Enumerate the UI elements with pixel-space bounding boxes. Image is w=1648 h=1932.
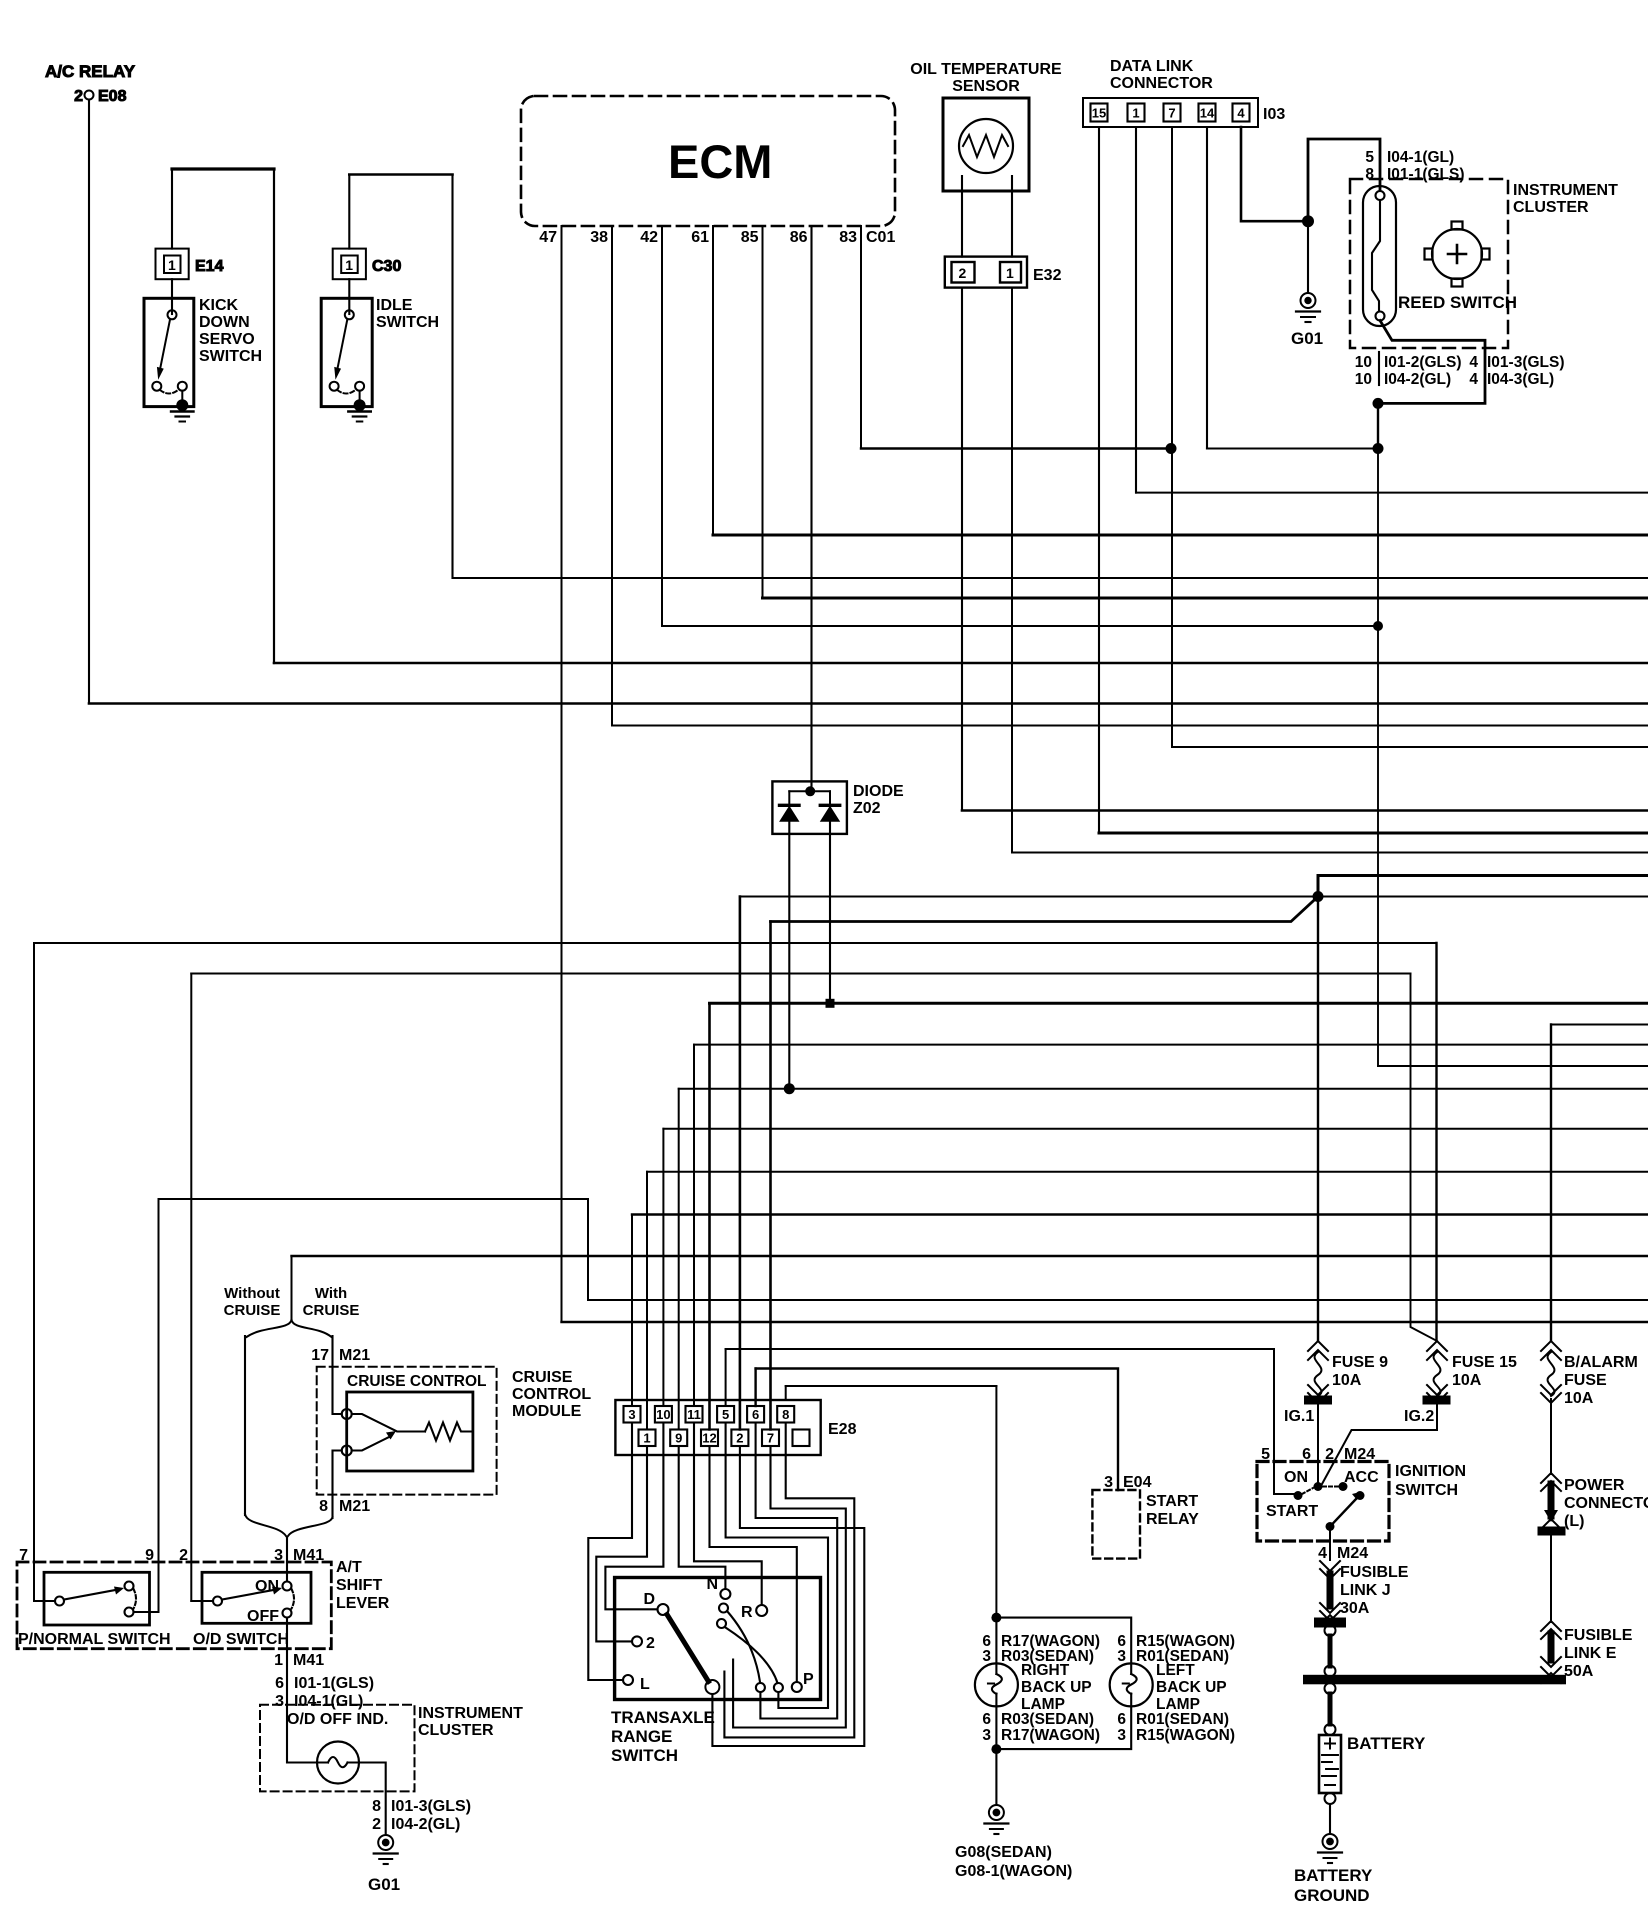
wire E28 pin1 up	[646, 1172, 648, 1430]
svg-text:P/NORMAL SWITCH: P/NORMAL SWITCH	[18, 1631, 171, 1648]
svg-text:BACK UP: BACK UP	[1021, 1679, 1092, 1696]
wire oil temp pin 2	[961, 288, 963, 811]
svg-text:OFF: OFF	[247, 1608, 279, 1625]
svg-text:SWITCH: SWITCH	[376, 314, 439, 331]
wire E28 pin11 line y=1044.6	[694, 1044, 1648, 1046]
svg-text:REED SWITCH: REED SWITCH	[1398, 293, 1517, 312]
wire reed node down	[1377, 403, 1379, 448]
ground G01 top	[1291, 227, 1323, 348]
svg-text:4: 4	[1318, 1545, 1327, 1562]
connector E32	[945, 257, 1027, 288]
svg-text:6: 6	[1117, 1711, 1126, 1728]
wire pin9 from P/NORMAL	[134, 1611, 159, 1613]
svg-text:86: 86	[790, 229, 808, 246]
svg-text:9: 9	[675, 1431, 682, 1446]
wire E28 pin9 line y=1088.7	[679, 1088, 1648, 1090]
rotary arm	[667, 1615, 709, 1682]
svg-text:8: 8	[372, 1798, 381, 1815]
wire ECM pin 38	[611, 226, 613, 726]
svg-text:RELAY: RELAY	[1146, 1511, 1199, 1528]
ground G01 bottom	[368, 1835, 400, 1894]
wire E28 pin3 line y=1214.5	[632, 1213, 1648, 1215]
connector C30	[333, 249, 366, 280]
speedometer symbol	[1425, 222, 1490, 287]
wire A/C relay horizontal y=703.5	[89, 702, 1648, 705]
P/NORMAL switch	[18, 1572, 171, 1648]
svg-text:I01-1(GLS): I01-1(GLS)	[1387, 166, 1465, 183]
wire ECM pin 85	[762, 226, 764, 598]
idle switch	[321, 298, 372, 421]
svg-text:3: 3	[1117, 1648, 1126, 1665]
svg-text:B/ALARM: B/ALARM	[1564, 1354, 1638, 1371]
transistor + resistor symbol	[342, 1409, 473, 1456]
power connector (L)	[1538, 1399, 1566, 1536]
svg-text:I01-3(GLS): I01-3(GLS)	[1487, 354, 1565, 371]
fusible link J	[1314, 1561, 1346, 1628]
svg-text:12: 12	[702, 1431, 716, 1446]
svg-text:10A: 10A	[1452, 1372, 1482, 1389]
wire E28 pin12 up	[708, 1003, 711, 1429]
kick down servo switch	[144, 298, 194, 421]
svg-text:3: 3	[275, 1693, 284, 1710]
svg-text:CRUISE: CRUISE	[512, 1369, 573, 1386]
wire DLC pin 1	[1135, 127, 1137, 493]
instrument cluster bottom dashed box	[260, 1705, 415, 1792]
svg-text:M21: M21	[339, 1347, 370, 1364]
svg-text:G01: G01	[1291, 329, 1323, 348]
wire fuse15 to ACC	[1322, 1405, 1437, 1485]
node 83 line / DLC pin7	[1166, 443, 1177, 454]
svg-text:R: R	[741, 1604, 753, 1621]
svg-text:2: 2	[646, 1635, 655, 1652]
wire DLC pin 7	[1171, 127, 1173, 747]
svg-text:I01-1(GLS): I01-1(GLS)	[294, 1675, 374, 1692]
right back up lamp	[975, 1613, 1131, 1755]
start relay E04	[1092, 1474, 1199, 1559]
svg-text:IG.2: IG.2	[1404, 1408, 1434, 1425]
wire fuse9 to ON	[1317, 1405, 1319, 1483]
wire B/alarm feed y=1024.5	[1551, 1024, 1648, 1026]
wire E28 pin6 down to contact	[756, 1423, 838, 1719]
svg-text:With: With	[315, 1285, 347, 1302]
wire DLC pin 15	[1098, 127, 1100, 833]
svg-text:SENSOR: SENSOR	[952, 78, 1020, 95]
wire kick-down right branch down	[273, 169, 275, 663]
svg-text:N: N	[706, 1576, 718, 1593]
wire reed bottom loop	[1378, 321, 1485, 404]
ignition switch M24	[1257, 1446, 1466, 1541]
node reed wire y448	[1373, 443, 1384, 454]
svg-text:RIGHT: RIGHT	[1021, 1662, 1070, 1679]
wire E28 pin12 line y=1003.3	[710, 1002, 1648, 1005]
svg-text:DATA LINK: DATA LINK	[1110, 58, 1194, 75]
svg-text:10A: 10A	[1332, 1372, 1362, 1389]
svg-text:G08(SEDAN): G08(SEDAN)	[955, 1844, 1052, 1861]
svg-text:4: 4	[1469, 371, 1478, 388]
svg-text:FUSE 15: FUSE 15	[1452, 1354, 1517, 1371]
wire kick-down horizontal y=663	[274, 662, 1648, 665]
svg-text:FUSIBLE: FUSIBLE	[1340, 1564, 1409, 1581]
svg-text:7: 7	[19, 1547, 28, 1564]
battery	[1319, 1734, 1426, 1833]
transaxle range switch box	[615, 1578, 821, 1700]
svg-text:C30: C30	[372, 258, 401, 275]
cruise split labels	[224, 1285, 360, 1319]
svg-text:INSTRUMENT: INSTRUMENT	[1513, 182, 1618, 199]
wire ECM pin 47	[561, 226, 563, 1322]
wire E28 pin7 down to contact	[733, 1446, 846, 1728]
svg-text:5: 5	[1365, 149, 1374, 166]
svg-text:Z02: Z02	[853, 800, 881, 817]
node IG1 junction	[1313, 891, 1324, 902]
wire cruise M21-17 line y=1256	[292, 1255, 1648, 1257]
svg-text:SWITCH: SWITCH	[1395, 1482, 1458, 1499]
wire E28 pin2 feed y=896.5	[740, 896, 1648, 898]
svg-text:R15(WAGON): R15(WAGON)	[1136, 1727, 1235, 1744]
ECM pin labels	[539, 229, 895, 246]
wire idle horizontal y=578	[453, 577, 1648, 579]
wire E28 pin6 up	[754, 1369, 756, 1407]
wire ignition to fusible link J	[1329, 1527, 1331, 1561]
svg-text:D: D	[643, 1591, 655, 1608]
wire DLC pin 14	[1206, 127, 1208, 449]
main bus bar	[1303, 1675, 1566, 1685]
svg-text:8: 8	[1365, 166, 1374, 183]
connector E28	[615, 1400, 856, 1455]
ECM box	[521, 96, 895, 226]
wire without-cruise bypass	[244, 1336, 246, 1515]
fusible link E	[1541, 1536, 1561, 1684]
wire E28 pin12 down to P	[710, 1446, 797, 1682]
wire E14 to switch	[171, 279, 173, 314]
svg-text:CRUISE: CRUISE	[224, 1302, 281, 1319]
svg-text:G08-1(WAGON): G08-1(WAGON)	[955, 1863, 1072, 1880]
svg-text:I04-2(GL): I04-2(GL)	[391, 1816, 460, 1833]
wire kick-down top loop	[172, 167, 274, 170]
wire E28 pin5 down to contact	[726, 1423, 828, 1709]
wire E28 pin2 up	[739, 897, 742, 1430]
fuse 15	[1423, 1341, 1451, 1405]
svg-text:I01-2(GLS): I01-2(GLS)	[1384, 354, 1462, 371]
svg-text:1: 1	[345, 257, 353, 273]
svg-text:START: START	[1266, 1503, 1318, 1520]
node 42 to reed wire	[1373, 621, 1383, 631]
svg-text:E32: E32	[1033, 267, 1062, 284]
svg-text:6: 6	[752, 1407, 759, 1422]
wire E28 pin1 down to 2	[596, 1446, 647, 1641]
battery stack	[1303, 1625, 1566, 1735]
wire E28 pin7 up	[769, 922, 772, 1430]
svg-text:START: START	[1146, 1493, 1198, 1510]
svg-text:E08: E08	[98, 88, 127, 105]
svg-text:I01-3(GLS): I01-3(GLS)	[391, 1798, 471, 1815]
svg-text:9: 9	[145, 1547, 154, 1564]
transaxle contacts	[623, 1576, 814, 1694]
wire pin2 into O/D	[191, 1600, 213, 1602]
svg-text:FUSE: FUSE	[1564, 1372, 1607, 1389]
wire A/T P-normal-9 line y=1300	[588, 1299, 1648, 1301]
svg-text:DOWN: DOWN	[199, 314, 250, 331]
label kick down servo switch	[199, 297, 262, 365]
svg-text:SWITCH: SWITCH	[611, 1746, 678, 1765]
svg-text:OIL TEMPERATURE: OIL TEMPERATURE	[910, 61, 1062, 78]
diode Z02	[772, 781, 904, 834]
A/T shift lever dashed box	[17, 1562, 331, 1649]
wire O/D switch pin2 line y=973.5	[191, 973, 1410, 975]
wire ECM pin 42	[661, 226, 663, 626]
svg-text:MODULE: MODULE	[512, 1403, 582, 1420]
svg-text:BACK UP: BACK UP	[1156, 1679, 1227, 1696]
svg-text:FUSIBLE: FUSIBLE	[1564, 1627, 1633, 1644]
svg-text:KICK: KICK	[199, 297, 239, 314]
wire diode right leg to pin12 line	[829, 820, 831, 1003]
svg-text:17: 17	[311, 1347, 329, 1364]
wire IG1 top branch	[1318, 876, 1648, 897]
svg-text:E14: E14	[195, 258, 224, 275]
wire E28 pin11 down to R	[694, 1423, 762, 1606]
wire diode left leg to pin9 line	[788, 820, 790, 1089]
contact arcs	[727, 1611, 760, 1682]
wire E28 pin8 line y=1386 to back up lamps	[786, 1385, 997, 1387]
svg-text:CLUSTER: CLUSTER	[418, 1722, 494, 1739]
left back up lamp	[1110, 1663, 1153, 1706]
wire E28 pin11 up	[693, 1045, 695, 1406]
svg-text:CRUISE: CRUISE	[303, 1302, 360, 1319]
wire ECM pin 61	[712, 226, 714, 535]
svg-text:10A: 10A	[1564, 1390, 1594, 1407]
svg-text:SHIFT: SHIFT	[336, 1577, 382, 1594]
svg-text:R01(SEDAN): R01(SEDAN)	[1136, 1711, 1229, 1728]
svg-text:LINK J: LINK J	[1340, 1582, 1391, 1599]
wire DLC pin 4 to G01	[1241, 127, 1308, 221]
svg-text:3: 3	[1117, 1727, 1126, 1744]
wire E28 pin9 up	[678, 1089, 680, 1430]
cruise module inner box	[347, 1392, 473, 1471]
svg-text:CLUSTER: CLUSTER	[1513, 199, 1589, 216]
svg-text:E28: E28	[828, 1421, 857, 1438]
connector E14	[156, 249, 189, 280]
wire E28 pin5 up	[725, 1349, 727, 1406]
svg-text:CONTROL: CONTROL	[512, 1386, 591, 1403]
svg-text:ACC: ACC	[1344, 1469, 1379, 1486]
svg-text:4: 4	[1469, 354, 1478, 371]
O/D switch	[193, 1572, 311, 1648]
svg-text:2: 2	[372, 1816, 381, 1833]
wire merge to A/T ON	[286, 1537, 288, 1581]
svg-text:G01: G01	[368, 1875, 400, 1894]
wire E28 pin3 down to L	[588, 1423, 632, 1681]
svg-text:Without: Without	[224, 1285, 280, 1302]
svg-text:1: 1	[274, 1652, 283, 1669]
B/alarm fuse	[1541, 1341, 1561, 1403]
wire E28 pin5 line y=1349 to ignition START	[726, 1349, 1294, 1494]
svg-text:I04-1(GL): I04-1(GL)	[1387, 149, 1454, 166]
svg-text:C01: C01	[866, 229, 895, 246]
wire E28 pin2 down to common	[712, 1446, 864, 1746]
svg-text:6: 6	[275, 1675, 284, 1692]
svg-text:3: 3	[982, 1727, 991, 1744]
wire ECM pin 86 to diode	[810, 226, 812, 791]
svg-text:BATTERY: BATTERY	[1294, 1866, 1373, 1885]
svg-text:LEFT: LEFT	[1156, 1662, 1195, 1679]
svg-text:85: 85	[741, 229, 759, 246]
wire ECM pin 83	[860, 226, 862, 449]
wire oil temp pin 1	[1011, 288, 1013, 853]
wire cruise module lower to merge	[333, 1451, 342, 1519]
svg-text:6: 6	[982, 1711, 991, 1728]
wire brace split top	[247, 1320, 332, 1337]
lamp labels	[982, 1633, 1235, 1744]
svg-text:11: 11	[687, 1407, 701, 1422]
A/C relay label E08	[45, 62, 136, 105]
svg-text:5: 5	[722, 1407, 729, 1422]
svg-text:M24: M24	[1337, 1545, 1368, 1562]
svg-text:83: 83	[839, 229, 857, 246]
wire E28 pin6 line y=1368.5 to start relay	[756, 1369, 1118, 1491]
svg-text:I04-1(GL): I04-1(GL)	[294, 1693, 363, 1710]
svg-text:3: 3	[628, 1407, 635, 1422]
wire lamps to G08	[995, 1749, 997, 1804]
wire lamp to G01 bottom	[359, 1763, 386, 1835]
wire fuse15 feed down	[1435, 943, 1437, 1341]
wire with-cruise upper	[333, 1336, 342, 1414]
svg-text:ON: ON	[1284, 1469, 1308, 1486]
svg-text:2: 2	[736, 1431, 743, 1446]
svg-text:L: L	[640, 1676, 650, 1693]
label idle switch	[376, 297, 439, 331]
svg-text:42: 42	[640, 229, 658, 246]
svg-text:10: 10	[1355, 354, 1372, 371]
svg-text:2: 2	[959, 265, 967, 281]
svg-text:SERVO: SERVO	[199, 331, 255, 348]
svg-text:A/T: A/T	[336, 1559, 362, 1576]
svg-text:ECM: ECM	[668, 135, 772, 188]
svg-text:CONNECTOR: CONNECTOR	[1564, 1495, 1648, 1512]
wire O/D OFF down to lamp	[287, 1618, 317, 1763]
O/D off indicator lamp	[317, 1742, 359, 1784]
svg-text:1: 1	[643, 1431, 650, 1446]
svg-text:8: 8	[319, 1498, 328, 1515]
wire P/NORMAL pin9 line y=1199	[159, 1198, 589, 1200]
svg-text:10: 10	[656, 1407, 670, 1422]
svg-text:7: 7	[1168, 106, 1175, 121]
ground battery	[1294, 1834, 1373, 1905]
svg-text:R03(SEDAN): R03(SEDAN)	[1001, 1711, 1094, 1728]
svg-text:2: 2	[74, 88, 83, 105]
labels 5 I04-1 / 8 I01-1	[1365, 149, 1464, 183]
reed switch	[1363, 186, 1517, 326]
svg-text:BATTERY: BATTERY	[1347, 1734, 1426, 1753]
oil temperature sensor	[910, 61, 1062, 257]
fuse 9	[1304, 897, 1332, 1405]
svg-text:P: P	[803, 1671, 814, 1688]
wire E28 pin7 feed y=921.5 with jog	[771, 897, 1319, 922]
svg-text:CONNECTOR: CONNECTOR	[1110, 75, 1213, 92]
svg-text:I04-3(GL): I04-3(GL)	[1487, 371, 1554, 388]
cruise control module dashed box	[317, 1367, 497, 1495]
svg-text:10: 10	[1355, 371, 1372, 388]
svg-text:POWER: POWER	[1564, 1477, 1625, 1494]
labels 10 I01-2 etc	[1355, 354, 1565, 388]
svg-text:30A: 30A	[1340, 1600, 1370, 1617]
data link connector I03	[1083, 58, 1285, 127]
svg-text:(L): (L)	[1564, 1513, 1584, 1530]
svg-text:14: 14	[1200, 106, 1215, 121]
svg-text:CRUISE CONTROL: CRUISE CONTROL	[347, 1373, 487, 1390]
svg-text:8: 8	[782, 1407, 789, 1422]
svg-text:O/D OFF IND.: O/D OFF IND.	[287, 1711, 388, 1728]
svg-text:4: 4	[1237, 106, 1245, 121]
wire E28 pin10 line y=1128.7	[663, 1128, 1648, 1130]
svg-text:7: 7	[767, 1431, 774, 1446]
svg-text:RANGE: RANGE	[611, 1727, 672, 1746]
svg-text:GROUND: GROUND	[1294, 1886, 1370, 1905]
svg-text:ON: ON	[255, 1578, 279, 1595]
wire E28 pin9 down to N	[679, 1446, 726, 1589]
wire reed top loop	[1308, 139, 1380, 221]
wire E28 pin1 line y=1171.8	[647, 1171, 1648, 1173]
svg-text:50A: 50A	[1564, 1663, 1594, 1680]
svg-text:I04-2(GL): I04-2(GL)	[1384, 371, 1451, 388]
svg-text:M21: M21	[339, 1498, 370, 1515]
svg-text:38: 38	[590, 229, 608, 246]
svg-text:1: 1	[1006, 265, 1014, 281]
svg-text:TRANSAXLE: TRANSAXLE	[611, 1708, 715, 1727]
svg-text:3: 3	[1104, 1474, 1113, 1491]
svg-text:E04: E04	[1123, 1474, 1152, 1491]
node G01 junction	[1302, 215, 1314, 227]
svg-text:DIODE: DIODE	[853, 783, 904, 800]
svg-text:1: 1	[1132, 106, 1139, 121]
svg-text:15: 15	[1092, 106, 1106, 121]
wire DLC pin14 to reed node	[1207, 447, 1378, 449]
svg-text:IDLE: IDLE	[376, 297, 413, 314]
svg-text:INSTRUMENT: INSTRUMENT	[418, 1705, 523, 1722]
wire E28 pin10 up	[662, 1129, 664, 1406]
ground G08	[955, 1805, 1072, 1880]
svg-text:I03: I03	[1263, 106, 1285, 123]
wire E28 pin3 up	[631, 1215, 633, 1407]
svg-text:FUSE 9: FUSE 9	[1332, 1354, 1388, 1371]
svg-text:IG.1: IG.1	[1284, 1408, 1314, 1425]
node reed loop	[1373, 398, 1384, 409]
wire E28 pin10 down to D	[605, 1423, 663, 1610]
svg-text:2: 2	[179, 1547, 188, 1564]
wire brace merge bottom	[245, 1514, 333, 1536]
svg-text:IGNITION: IGNITION	[1395, 1463, 1466, 1480]
svg-text:R17(WAGON): R17(WAGON)	[1001, 1727, 1100, 1744]
svg-text:61: 61	[691, 229, 709, 246]
wire P/NORMAL pin7 line y=943	[34, 942, 1437, 944]
svg-text:A/C RELAY: A/C RELAY	[45, 62, 136, 81]
svg-text:1: 1	[168, 257, 176, 273]
svg-text:3: 3	[982, 1648, 991, 1665]
wire idle right branch down	[451, 175, 453, 579]
wire A/C relay E08 pin2 down	[88, 100, 90, 704]
wire pin7 into P/NORMAL	[34, 1600, 55, 1602]
svg-text:O/D SWITCH: O/D SWITCH	[193, 1631, 289, 1648]
instrument cluster top dashed box	[1350, 179, 1508, 348]
wire idle switch top loop	[349, 173, 452, 176]
wire C30 to switch	[348, 279, 350, 314]
svg-text:LEVER: LEVER	[336, 1595, 390, 1612]
svg-text:M41: M41	[293, 1652, 324, 1669]
wire E28 pin8 through down to contact	[724, 1423, 854, 1738]
svg-text:47: 47	[539, 229, 557, 246]
svg-text:LINK E: LINK E	[1564, 1645, 1617, 1662]
svg-text:SWITCH: SWITCH	[199, 348, 262, 365]
